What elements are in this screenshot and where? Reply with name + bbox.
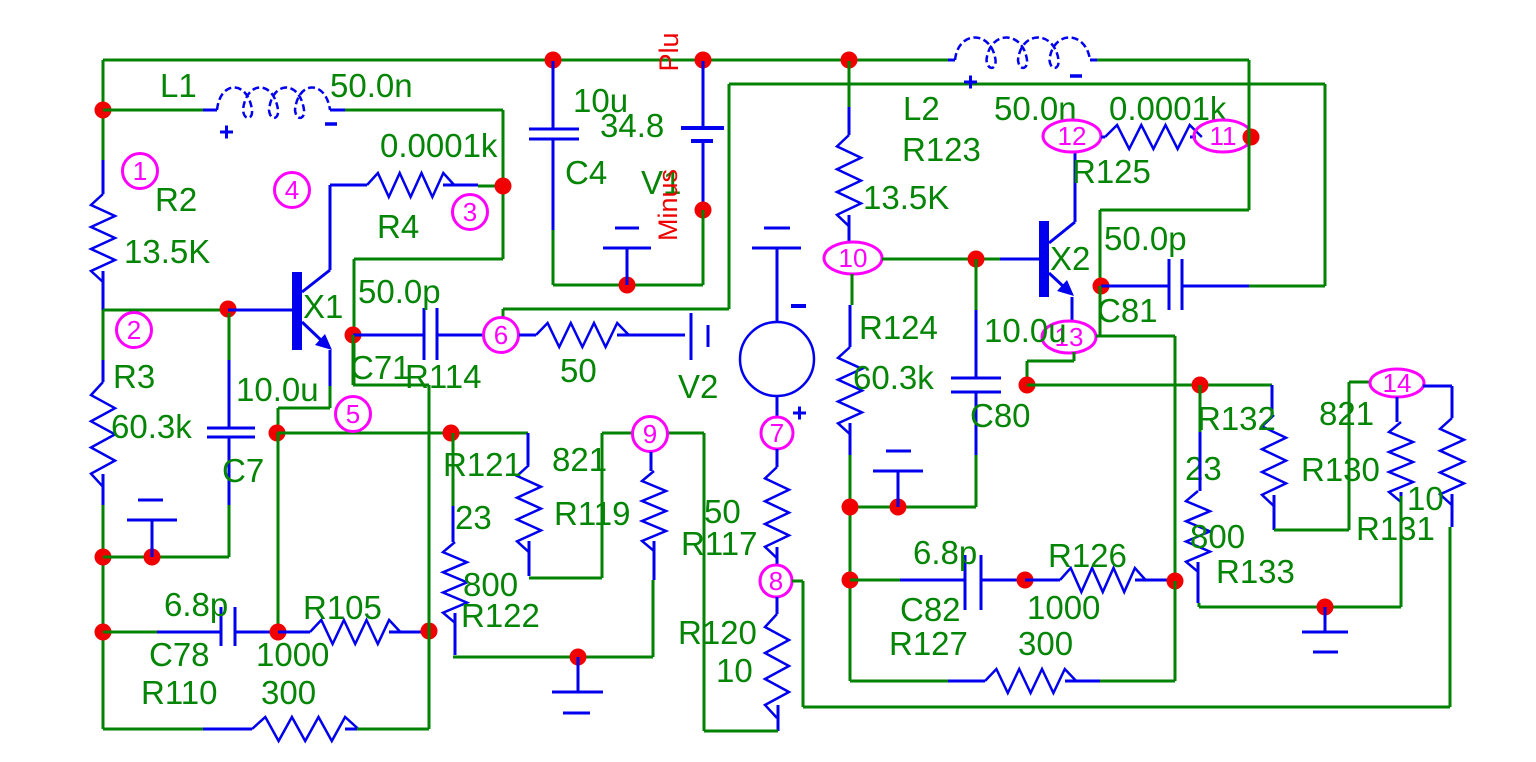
svg-text:300: 300 bbox=[261, 674, 316, 711]
resistor R127 bottom loop bbox=[850, 680, 948, 683]
svg-text:R126: R126 bbox=[1048, 537, 1127, 574]
svg-text:50.0p: 50.0p bbox=[1104, 220, 1187, 257]
ground symbol (C7/R3) bbox=[151, 520, 154, 557]
resistor R121 bbox=[527, 433, 530, 465]
junction dot base X1 bbox=[220, 301, 237, 318]
svg-text:11: 11 bbox=[1210, 121, 1237, 151]
svg-text:R131: R131 bbox=[1356, 510, 1435, 547]
ground symbol (R122/R119) bbox=[577, 657, 580, 692]
svg-text:X1: X1 bbox=[303, 288, 343, 325]
svg-text:R133: R133 bbox=[1216, 553, 1295, 590]
svg-text:6: 6 bbox=[494, 320, 508, 350]
svg-text:0.0001k: 0.0001k bbox=[380, 127, 498, 164]
inductor L2 bbox=[948, 59, 955, 62]
transistor X1 bbox=[292, 272, 302, 350]
wire V1 bottom to C4 bottom bbox=[553, 210, 703, 285]
junction dot V1 top bbox=[695, 52, 712, 69]
plus mark V2 bbox=[793, 407, 806, 420]
svg-text:60.3k: 60.3k bbox=[111, 408, 192, 445]
svg-text:821: 821 bbox=[1319, 395, 1374, 432]
wire R132 bottom to node14 left bbox=[1274, 382, 1371, 530]
resistor R114 bbox=[519, 334, 536, 337]
junction dot node11 right bbox=[1243, 129, 1260, 146]
resistor R120 bbox=[776, 597, 779, 614]
inductor L1 bbox=[203, 109, 217, 112]
svg-text:R4: R4 bbox=[377, 208, 419, 245]
svg-text:50.0p: 50.0p bbox=[358, 273, 441, 310]
svg-text:13.5K: 13.5K bbox=[124, 233, 210, 270]
battery V1 bbox=[702, 61, 705, 128]
resistor R125 bbox=[1101, 136, 1105, 139]
node 13 bubble bbox=[1042, 321, 1096, 353]
wire node13 right branch bbox=[1096, 336, 1175, 581]
junction dot R126 right bbox=[1167, 573, 1184, 590]
capacitor C71 bbox=[353, 334, 424, 337]
svg-text:10.0u: 10.0u bbox=[236, 371, 319, 408]
svg-text:50: 50 bbox=[560, 352, 597, 389]
junction dot ground stem bbox=[144, 549, 161, 566]
svg-text:Plu: Plu bbox=[654, 32, 684, 71]
wire X1 emitter to node5 line bbox=[278, 386, 330, 433]
resistor R122 bbox=[452, 433, 455, 506]
wire C80 bottom ground line bbox=[850, 506, 976, 509]
junction dot V1 ground bbox=[619, 277, 636, 294]
svg-text:X2: X2 bbox=[1050, 240, 1090, 277]
wire top rail (node Plus rail) bbox=[103, 59, 1249, 62]
svg-text:6.8p: 6.8p bbox=[164, 586, 228, 623]
junction dot V1 bottom bbox=[695, 202, 712, 219]
junction dot R105 right bbox=[421, 623, 438, 640]
resistor R3 bbox=[102, 310, 105, 360]
node 7 bubble bbox=[761, 417, 793, 449]
svg-text:R121: R121 bbox=[443, 446, 522, 483]
wire ground line under R3 bbox=[103, 556, 229, 559]
svg-text:R105: R105 bbox=[303, 589, 382, 626]
svg-text:C82: C82 bbox=[900, 591, 961, 628]
junction dot R123 top bbox=[841, 52, 858, 69]
resistor R123 bbox=[848, 61, 851, 107]
resistor R119 bbox=[650, 452, 653, 471]
wire right side of R110 loop bbox=[353, 335, 429, 729]
node 9 bubble bbox=[633, 417, 668, 452]
resistor R4 bbox=[330, 184, 367, 187]
ground symbol (right) bbox=[1324, 607, 1327, 632]
node 10 bubble bbox=[824, 242, 882, 274]
wire node9 segment bbox=[529, 433, 704, 578]
node 14 bubble bbox=[1370, 369, 1424, 397]
resistor R132 bbox=[1271, 385, 1274, 415]
svg-text:14: 14 bbox=[1383, 368, 1412, 398]
junction dot R133 top bbox=[1192, 377, 1209, 394]
svg-text:13.5K: 13.5K bbox=[863, 179, 949, 216]
capacitor C7 bbox=[228, 313, 231, 360]
junction dot R3 ground line bbox=[95, 549, 112, 566]
svg-text:2: 2 bbox=[127, 315, 141, 345]
wire R132 top rail bbox=[1027, 384, 1272, 387]
resistor R105 bbox=[278, 631, 310, 634]
wire node5 line bbox=[277, 432, 528, 435]
svg-text:50.0n: 50.0n bbox=[330, 67, 413, 104]
junction dot emitter node5 bbox=[269, 425, 286, 442]
capacitor C80 bbox=[975, 259, 978, 310]
source V2 circle bbox=[740, 322, 814, 396]
minus mark V2 bbox=[791, 304, 806, 308]
svg-text:R120: R120 bbox=[678, 614, 757, 651]
wire node8 to bottom right rail bbox=[792, 581, 1450, 707]
svg-text:R127: R127 bbox=[889, 625, 968, 662]
ground symbol (C80 line) bbox=[897, 471, 900, 507]
resistor R130 bbox=[1396, 397, 1399, 422]
svg-text:300: 300 bbox=[1018, 625, 1073, 662]
svg-text:C4: C4 bbox=[565, 154, 607, 191]
resistor R131 bbox=[1423, 385, 1452, 388]
junction dot elbow bbox=[1019, 377, 1036, 394]
node 6 bubble bbox=[484, 318, 519, 353]
wire top rail right corner down to C81 loop bbox=[1100, 60, 1249, 286]
wire R133 bottom ground line bbox=[1199, 603, 1401, 607]
svg-text:8: 8 bbox=[769, 566, 783, 596]
svg-text:C7: C7 bbox=[222, 452, 264, 489]
capacitor C4 bbox=[552, 61, 555, 129]
svg-text:R119: R119 bbox=[554, 495, 630, 532]
svg-text:C80: C80 bbox=[970, 397, 1031, 434]
svg-text:R114: R114 bbox=[405, 358, 481, 395]
svg-text:1000: 1000 bbox=[256, 636, 329, 673]
node 11 bubble bbox=[1194, 120, 1252, 152]
ground symbol above V2 bbox=[776, 248, 779, 322]
svg-text:60.3k: 60.3k bbox=[853, 359, 934, 396]
svg-text:C81: C81 bbox=[1097, 292, 1158, 329]
wire R119 bottom to ground line bbox=[453, 580, 653, 657]
junction dot R122 top bbox=[443, 425, 460, 442]
wire node9 corner down to R120 bottom bbox=[704, 433, 778, 731]
resistor R2 bbox=[102, 160, 105, 194]
svg-text:34.8: 34.8 bbox=[600, 107, 664, 144]
junction dot ground mid bbox=[570, 649, 587, 666]
svg-text:800: 800 bbox=[1190, 518, 1245, 555]
svg-text:7: 7 bbox=[770, 418, 784, 448]
junction dot left rail bbox=[95, 102, 112, 119]
svg-text:6.8p: 6.8p bbox=[913, 534, 977, 571]
junction dot C71 left bbox=[345, 327, 362, 344]
svg-text:Minus: Minus bbox=[653, 169, 683, 241]
wire L1 stub bbox=[103, 109, 203, 112]
wire node13 bottom elbow bbox=[1027, 352, 1074, 385]
svg-text:R132: R132 bbox=[1197, 400, 1276, 437]
svg-text:L2: L2 bbox=[903, 90, 940, 127]
junction dot C4 top bbox=[545, 52, 562, 69]
node 3 bubble bbox=[453, 195, 488, 230]
svg-text:R3: R3 bbox=[113, 358, 155, 395]
capacitor C78 bbox=[103, 631, 157, 634]
svg-text:R130: R130 bbox=[1301, 451, 1380, 488]
svg-text:23: 23 bbox=[455, 499, 492, 536]
junction dot R105 left bbox=[270, 624, 287, 641]
junction dot base X2 bbox=[968, 251, 985, 268]
svg-text:R125: R125 bbox=[1072, 153, 1151, 190]
svg-text:1: 1 bbox=[133, 156, 147, 186]
node 1 bubble bbox=[123, 154, 158, 189]
wire left column lower bbox=[102, 557, 105, 729]
svg-text:5: 5 bbox=[346, 399, 360, 429]
svg-text:9: 9 bbox=[643, 419, 657, 449]
node 8 bubble bbox=[760, 565, 792, 597]
wire C81 left down to node13 line bbox=[1099, 286, 1102, 336]
svg-text:R110: R110 bbox=[141, 674, 217, 711]
svg-text:R2: R2 bbox=[155, 181, 197, 218]
node 5 bubble bbox=[336, 397, 371, 432]
junction dot C80 ground b bbox=[890, 499, 907, 516]
V2 left terminal bars bbox=[690, 313, 693, 360]
svg-text:3: 3 bbox=[463, 197, 477, 227]
svg-text:R122: R122 bbox=[461, 597, 540, 634]
junction dot R126 left bbox=[1017, 572, 1034, 589]
svg-text:12: 12 bbox=[1058, 121, 1087, 151]
resistor R133 bbox=[1199, 385, 1202, 432]
wire L1 right to R4 right / node3 bbox=[345, 110, 503, 385]
junction dot C80 ground a bbox=[842, 499, 859, 516]
svg-text:821: 821 bbox=[552, 441, 607, 478]
svg-text:R117: R117 bbox=[681, 525, 757, 562]
junction dot C81 left bbox=[1093, 278, 1110, 295]
svg-text:10: 10 bbox=[839, 243, 868, 273]
node 12 bubble bbox=[1043, 120, 1101, 152]
node 2 bubble bbox=[117, 313, 152, 348]
resistor R124 bbox=[851, 274, 854, 305]
junction dot R4 right bbox=[495, 178, 512, 195]
capacitor C81 bbox=[1101, 285, 1169, 288]
wire left column top bbox=[102, 60, 105, 160]
wire base X2 bbox=[882, 258, 1000, 261]
svg-text:R124: R124 bbox=[859, 309, 938, 346]
junction dot C82 left bbox=[842, 572, 859, 589]
svg-text:R123: R123 bbox=[902, 131, 981, 168]
ground symbol (V1) bbox=[626, 248, 629, 285]
svg-text:10.0u: 10.0u bbox=[984, 312, 1067, 349]
capacitor C82 bbox=[850, 579, 900, 582]
resistor R126 bbox=[1025, 579, 1060, 582]
wire second rail from node6 loop to C81 right bbox=[503, 84, 1325, 317]
svg-text:23: 23 bbox=[1185, 450, 1222, 487]
wire base node2 bbox=[103, 309, 228, 312]
svg-text:1000: 1000 bbox=[1027, 589, 1100, 626]
junction dot C78 left bbox=[95, 624, 112, 641]
svg-text:4: 4 bbox=[285, 175, 299, 205]
wire V2 bottom bbox=[776, 396, 779, 417]
svg-text:C78: C78 bbox=[149, 636, 210, 673]
svg-text:L1: L1 bbox=[160, 67, 197, 104]
svg-text:V2: V2 bbox=[678, 368, 718, 405]
wire vertical to C78 line bbox=[277, 433, 280, 632]
transistor X2 bbox=[1039, 221, 1049, 297]
resistor R110 on bottom wire bbox=[103, 728, 203, 731]
junction dot right ground bbox=[1317, 599, 1334, 616]
wire base lead X1 bbox=[228, 309, 292, 312]
resistor R117 bbox=[776, 449, 779, 467]
svg-text:C71: C71 bbox=[350, 349, 411, 386]
svg-text:10: 10 bbox=[716, 652, 753, 689]
node 4 bubble bbox=[275, 173, 310, 208]
